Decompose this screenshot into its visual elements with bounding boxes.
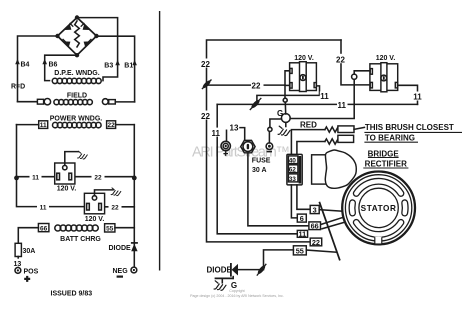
bullet connector on 11 junction [250, 98, 261, 110]
wire box3 right [319, 210, 342, 212]
brush terminal 2 [338, 135, 354, 142]
receptacle R4 120V [370, 63, 398, 92]
junction dot right rail [132, 176, 137, 181]
wire bridge left corner to left rail [18, 36, 58, 102]
stator [342, 172, 415, 245]
receptacle R1 wire right 22 [75, 176, 134, 178]
terminal circle to receptacle R4 [352, 71, 370, 79]
ground symbol under G [278, 123, 290, 136]
svg-text:B4: B4 [21, 61, 30, 68]
positive terminal (right panel) [221, 141, 230, 156]
BRIDGE RECTIFIER label [363, 149, 408, 168]
strip pin to box 6 [291, 185, 297, 218]
plus symbol [24, 276, 30, 282]
copyright footer [190, 289, 284, 298]
battery charge coil [55, 225, 98, 231]
POS terminal [15, 268, 21, 274]
node 13 label [13, 259, 23, 268]
marker box 66 [309, 222, 321, 231]
ground feed wire from terminal down to G [290, 79, 354, 118]
svg-text:Copyright: Copyright [229, 289, 244, 293]
stator slots [352, 181, 405, 234]
svg-text:120 V.: 120 V. [57, 186, 77, 193]
bridge rectifier diamond [58, 18, 97, 56]
svg-text:33: 33 [289, 176, 297, 183]
svg-text:30A: 30A [23, 248, 36, 255]
varistor zigzag inside bridge [75, 21, 80, 47]
svg-text:FIELD: FIELD [67, 92, 87, 99]
strip pin to box 3 [297, 185, 310, 209]
diode D2 top-right edge [81, 23, 90, 30]
svg-text:R=D: R=D [11, 84, 25, 91]
panel separator line [159, 11, 161, 271]
D.P.E. winding coil L1 [52, 78, 101, 83]
marker box 6 [297, 214, 306, 223]
receptacle R2 ground [95, 188, 121, 196]
brush terminal 1 [338, 126, 354, 133]
svg-text:D.P.E. WNDG.: D.P.E. WNDG. [54, 70, 99, 77]
diode D5 on right rail [131, 243, 138, 251]
svg-text:DIODE: DIODE [207, 266, 233, 275]
svg-text:B3: B3 [104, 62, 113, 69]
fuse holder FUSE 30A [241, 140, 255, 152]
svg-text:22: 22 [107, 122, 115, 129]
svg-text:13: 13 [230, 124, 239, 133]
svg-text:22: 22 [111, 204, 119, 211]
svg-text:66: 66 [311, 222, 319, 231]
wire bridge bottom corner to B6 [45, 55, 77, 80]
negative terminal (right panel) [266, 143, 273, 152]
stator bottom keyway notch [375, 237, 382, 244]
svg-text:G: G [277, 109, 283, 118]
svg-text:Page design (c) 2004 - 2016 by: Page design (c) 2004 - 2016 by ARI Netwo… [190, 294, 284, 298]
svg-text:DIODE: DIODE [109, 245, 132, 252]
junction dots on bridge corners [75, 15, 79, 19]
minus symbol [117, 276, 123, 278]
wire bridge top corner to B3 rail [77, 18, 118, 81]
net 22 label lower [201, 111, 213, 121]
svg-text:11: 11 [320, 92, 329, 101]
svg-text:62: 62 [289, 167, 297, 174]
svg-text:22: 22 [336, 55, 345, 64]
diode D1 top-left edge [65, 23, 74, 30]
svg-text:BATT CHRG: BATT CHRG [60, 236, 101, 243]
field terminal box left [37, 99, 43, 104]
svg-text:11: 11 [299, 230, 307, 239]
wire box22 to right rail [116, 124, 135, 126]
svg-text:55: 55 [296, 247, 304, 256]
node 13 bracket [227, 124, 245, 141]
svg-text:120 V.: 120 V. [85, 216, 105, 223]
inline connector circle [283, 98, 287, 102]
svg-text:THIS BRUSH CLOSEST: THIS BRUSH CLOSEST [365, 123, 454, 132]
field brush circle left [44, 99, 50, 105]
marker box 55 [293, 246, 306, 256]
wire 22 top run [207, 40, 342, 242]
wire fuse down to box 66 [248, 153, 309, 226]
harness diagonal [320, 203, 340, 260]
bullet connector on diode wire [257, 264, 267, 276]
node B4 arrow [15, 59, 20, 65]
field wire left [18, 101, 38, 103]
right rail [133, 125, 135, 267]
diode ground [214, 277, 237, 291]
diode D3 bottom-left edge [63, 39, 71, 47]
field terminal box right [109, 100, 116, 104]
svg-text:STATOR: STATOR [361, 204, 397, 213]
svg-text:22: 22 [94, 174, 102, 181]
svg-text:55: 55 [106, 226, 114, 233]
receptacle R3 120V [290, 62, 317, 92]
svg-text:B1: B1 [124, 62, 133, 69]
junction dot left rail [14, 176, 19, 181]
svg-text:22: 22 [312, 238, 320, 247]
node B6 arrow [42, 59, 47, 65]
net 11 label [320, 91, 330, 101]
receptacle R2 wire right 22 [105, 206, 135, 208]
wire 22 drop to receptacle 2 [341, 40, 370, 85]
receptacle R2 120V [84, 193, 104, 214]
receptacle R1 120V [55, 163, 75, 184]
power winding coil [53, 122, 102, 127]
brush note text [364, 123, 462, 142]
wire 22 branch to receptacle [207, 84, 286, 86]
bridge rectifier heatsink blob [325, 150, 356, 188]
svg-text:120 V.: 120 V. [376, 55, 396, 62]
wire 11 from receptacle 2 [398, 85, 418, 104]
wire box55 to right rail [115, 227, 134, 229]
wire box55 right [306, 250, 336, 252]
wire negative terminal to G [268, 119, 282, 143]
svg-text:3: 3 [313, 205, 317, 214]
receptacle R1 ground [65, 151, 88, 165]
svg-text:NEG: NEG [113, 268, 129, 275]
node B1 arrow [132, 60, 137, 66]
svg-text:RED: RED [300, 121, 317, 130]
bridge rectifier block [312, 155, 327, 184]
wire box11 to left rail [17, 124, 39, 126]
svg-text:22: 22 [201, 112, 210, 121]
wire fuse to POS [17, 257, 19, 268]
marker box 11 [297, 230, 307, 239]
receptacle R2 wire 11 label [37, 203, 49, 212]
diode D4 bottom-right edge [84, 39, 92, 47]
diode D6 symbol [231, 263, 238, 277]
svg-text:66: 66 [40, 225, 48, 232]
terminal box 11 [39, 121, 48, 129]
connector strip [287, 154, 302, 185]
svg-text:11: 11 [413, 93, 422, 102]
svg-text:B6: B6 [49, 61, 58, 68]
marker box 3 [310, 205, 319, 214]
wire box55 left run to diode [237, 250, 293, 270]
wire to G circle [284, 102, 286, 114]
svg-text:30 A: 30 A [252, 167, 267, 174]
wire 11 receptacle 1 branch [257, 86, 320, 105]
wire 11 long run [217, 103, 417, 105]
field brush circle right [102, 99, 108, 105]
ground G circle [281, 114, 290, 123]
left rail of power loop [17, 125, 85, 207]
NEG terminal [131, 267, 137, 273]
svg-text:FUSE: FUSE [252, 158, 271, 165]
svg-text:6: 6 [300, 214, 304, 223]
svg-text:120 V.: 120 V. [294, 55, 314, 62]
net 22 label upper [201, 59, 213, 69]
svg-text:TO BEARING: TO BEARING [365, 133, 415, 142]
wire 11 rail [217, 104, 297, 233]
svg-text:11: 11 [338, 101, 347, 110]
brush wire 1 with resistor [291, 127, 339, 154]
svg-text:22: 22 [201, 60, 210, 69]
svg-text:11: 11 [212, 129, 221, 138]
stator lead pair from box66 [322, 217, 345, 229]
svg-text:ISSUED 9/83: ISSUED 9/83 [51, 290, 93, 297]
wire box66 to fuse [18, 228, 38, 244]
field winding coil [54, 100, 92, 105]
svg-text:22: 22 [252, 82, 261, 91]
terminal box 66 [38, 224, 49, 232]
marker box 22 [310, 238, 322, 247]
field wire right to B1 rail [115, 101, 134, 103]
brush wire 2 with resistor [297, 139, 340, 154]
svg-text:11: 11 [32, 174, 39, 181]
svg-text:11: 11 [40, 204, 47, 211]
leader line to brush note [354, 127, 364, 129]
svg-text:RECTIFIER: RECTIFIER [365, 160, 407, 169]
bullet connector on 22 rail [202, 79, 212, 89]
svg-text:POWER WNDG.: POWER WNDG. [50, 116, 103, 123]
svg-text:11: 11 [40, 122, 47, 129]
svg-text:POS: POS [24, 268, 39, 275]
terminal box 55 [105, 224, 115, 232]
receptacle R3 feed vertical [285, 71, 290, 98]
fuse 30A [15, 243, 21, 256]
wire bridge right corner to B1 rail [97, 36, 135, 102]
terminal box 22 [107, 121, 116, 129]
receptacle R1 wire left 11 [17, 176, 55, 178]
node B3 arrow [115, 60, 120, 66]
svg-text:40: 40 [289, 158, 297, 165]
